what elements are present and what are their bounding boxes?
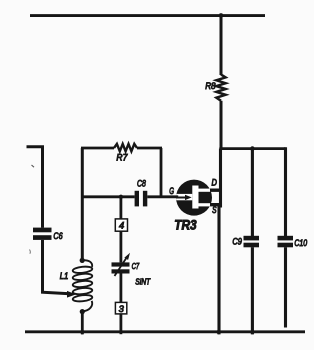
input stub wire top left <box>27 147 43 228</box>
svg-text:C6: C6 <box>53 231 62 241</box>
wire from top rail down to R8 <box>220 13 223 75</box>
adjustment arrow of C7 <box>115 253 131 276</box>
capacitor C10 <box>278 236 294 248</box>
svg-text:C9: C9 <box>232 237 242 247</box>
wire C9 column top <box>251 149 254 236</box>
junction dot bottom rail at source column <box>216 330 220 334</box>
junction dot at C9 branch <box>250 146 255 151</box>
wire left feedback vertical (R7 left to coil top) <box>81 148 84 261</box>
scan speck near input stub <box>32 165 35 167</box>
junction dot coil bottom <box>80 309 85 314</box>
wire drain node down along transistor to bottom rail <box>219 149 221 335</box>
capacitor C6 <box>33 228 52 240</box>
wire coil bottom to rail <box>81 312 84 335</box>
drain lead stub to TR3 <box>210 188 221 191</box>
capacitor C8 <box>135 191 148 207</box>
inductor L1 (coil) <box>72 260 92 311</box>
scan speck left of C6 column <box>29 250 32 254</box>
wire terminal 4 to C7 <box>120 231 123 262</box>
svg-text:TR3: TR3 <box>174 218 197 233</box>
svg-text:C10: C10 <box>294 238 307 248</box>
source lead stub from TR3 <box>210 203 220 206</box>
capacitor C9 <box>244 236 260 248</box>
svg-text:R7: R7 <box>116 153 128 163</box>
wire C7 to terminal 3 <box>120 274 123 303</box>
svg-text:C8: C8 <box>137 179 146 189</box>
svg-text:4: 4 <box>119 221 124 231</box>
wire terminal 3 to bottom rail <box>120 314 123 334</box>
resistor R8 (vertical zigzag) <box>216 75 225 101</box>
junction dot gate line / box4 branch <box>119 195 123 199</box>
wire R7 right drop to gate line <box>160 148 163 198</box>
junction dot bottom rail at coil <box>80 330 84 334</box>
wire C9 column bottom <box>251 247 254 334</box>
svg-text:D: D <box>212 178 218 188</box>
bottom rail <box>25 330 305 333</box>
junction dot on top rail at R8 column <box>219 13 224 18</box>
wire R7 left segment <box>81 147 114 150</box>
capacitor C7 (variable) <box>112 262 130 273</box>
transistor TR3 (black disc JFET) <box>176 180 213 216</box>
wire gate line left of C8 <box>82 195 134 198</box>
terminal box 3 <box>115 302 126 314</box>
svg-text:S: S <box>212 205 216 215</box>
svg-text:C7: C7 <box>132 261 140 271</box>
junction dot coil top <box>80 258 85 263</box>
terminal box 4 <box>115 219 127 231</box>
resistor R7 (horizontal zigzag) <box>114 144 137 151</box>
wire C10 column bottom (stops just above rail) <box>284 247 287 327</box>
top supply rail <box>30 14 265 17</box>
svg-text:3: 3 <box>119 304 125 314</box>
wire R7 right segment <box>137 147 162 150</box>
junction dot bottom rail at C9 <box>250 330 254 334</box>
horizontal junction wire (drain node) <box>219 147 285 150</box>
svg-text:R8: R8 <box>205 81 215 91</box>
coil tap arrow <box>67 291 76 298</box>
svg-text:L1: L1 <box>60 271 69 281</box>
wire C6 down and right to coil tap <box>43 240 68 294</box>
wire from gate junction down to terminal 4 <box>120 197 123 219</box>
wire gate line right of C8 to G <box>147 195 178 198</box>
wire from R8 down to drain junction line <box>220 101 223 149</box>
svg-text:SINT: SINT <box>135 278 151 287</box>
wire C10 column top <box>284 147 287 236</box>
svg-text:G: G <box>169 186 174 196</box>
